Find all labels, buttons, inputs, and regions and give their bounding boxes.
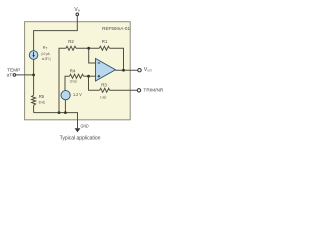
svg-text:1.2 V: 1.2 V (73, 92, 82, 97)
svg-text:1 kΩ: 1 kΩ (100, 96, 107, 100)
svg-text:REF50mA-01: REF50mA-01 (102, 26, 130, 31)
svg-text:R4: R4 (70, 68, 76, 73)
svg-text:at 25°C): at 25°C) (42, 57, 51, 61)
svg-text:αT: αT (7, 73, 13, 79)
svg-text:R1: R1 (102, 39, 108, 44)
svg-text:R2: R2 (68, 39, 74, 44)
svg-text:TRIM/NR: TRIM/NR (143, 88, 163, 94)
svg-text:R3: R3 (101, 82, 107, 87)
svg-text:R5: R5 (39, 94, 45, 99)
svg-text:GND: GND (81, 124, 90, 129)
svg-text:Typical application: Typical application (60, 136, 101, 142)
svg-text:VIN: VIN (74, 7, 80, 13)
svg-text:VOUT: VOUT (144, 67, 152, 73)
svg-text:10 kΩ: 10 kΩ (70, 79, 77, 83)
svg-text:(10 µA: (10 µA (41, 52, 50, 56)
svg-text:60 kΩ: 60 kΩ (39, 101, 46, 105)
